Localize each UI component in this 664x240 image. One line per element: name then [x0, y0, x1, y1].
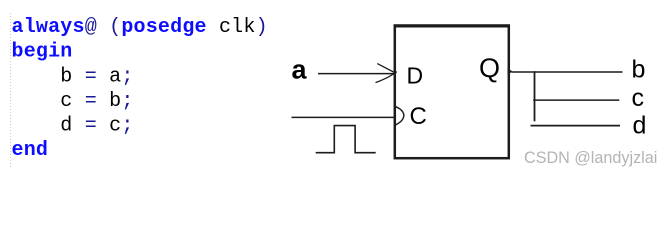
svg-text:a: a	[292, 55, 308, 85]
svg-text:end: end	[12, 139, 49, 162]
svg-text:c: c	[632, 84, 645, 112]
svg-text:c = b;: c = b;	[12, 90, 134, 113]
Q output stub arrow	[508, 68, 513, 75]
wire Q to b	[512, 71, 623, 73]
svg-text:CSDN @landyjzlai: CSDN @landyjzlai	[524, 149, 657, 167]
clock wedge at C input	[395, 106, 404, 125]
svg-text:d: d	[633, 112, 647, 140]
svg-text:C: C	[410, 103, 427, 130]
svg-text:D: D	[407, 63, 424, 89]
clock pulse waveform	[316, 126, 376, 153]
code margin guide	[10, 13, 12, 169]
D flip-flop body U1	[394, 26, 511, 159]
wire clock to C input	[292, 116, 395, 118]
svg-text:b: b	[632, 56, 646, 84]
svg-text:d = c;: d = c;	[12, 115, 134, 138]
wire branch to c	[533, 99, 619, 101]
wire branch to d	[531, 125, 621, 127]
svg-text:b = a;: b = a;	[12, 65, 134, 88]
arrowhead at D input	[376, 64, 397, 83]
svg-text:begin: begin	[12, 41, 73, 64]
junction vertical from b-wire	[534, 71, 536, 121]
wire a to D input	[318, 73, 394, 75]
svg-text:Q: Q	[479, 53, 500, 83]
svg-text:always@ (posedge clk): always@ (posedge clk)	[12, 16, 268, 39]
